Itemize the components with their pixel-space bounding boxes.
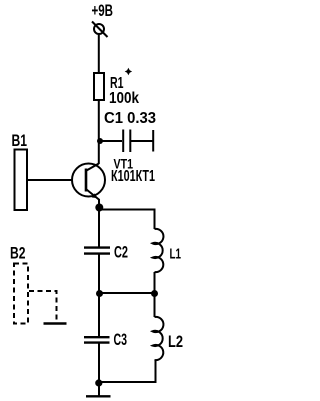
inductor L2 (153, 317, 164, 360)
wire C2 to mid node (98, 254, 100, 294)
capacitor C3 (84, 337, 110, 342)
R1 selection star (125, 68, 132, 75)
svg-text:К101КТ1: К101КТ1 (111, 168, 155, 185)
node ground junction (95, 379, 102, 386)
wire mid node to L2 top (154, 294, 156, 318)
wire R1 to collector node (98, 100, 100, 164)
ground stub (98, 383, 100, 396)
resistor R1 (94, 73, 104, 100)
svg-text:L1: L1 (170, 246, 182, 263)
dashed wire B2 to chassis (29, 291, 57, 320)
svg-text:B1: B1 (12, 131, 28, 150)
svg-text:B2: B2 (10, 245, 26, 263)
svg-text:L2: L2 (168, 332, 183, 351)
svg-text:C1 0.33: C1 0.33 (104, 110, 156, 127)
power terminal X1 (92, 22, 108, 38)
wire emitter node to L1 top (100, 210, 155, 230)
node emitter junction (95, 204, 103, 212)
wire L1 to mid node (154, 272, 156, 294)
wire B1 to base (27, 179, 72, 181)
wire C3 to ground node (98, 343, 100, 383)
ground bar (86, 395, 111, 397)
wire emitter node to C2 (98, 210, 100, 248)
mid rail wire (99, 292, 155, 294)
svg-text:100k: 100k (109, 90, 139, 107)
transistor VT1 (72, 164, 105, 210)
node mid junction right (151, 290, 158, 297)
microphone B1 (15, 150, 28, 211)
wire mid node to C3 (98, 294, 100, 338)
wire terminal to R1 (98, 34, 100, 73)
svg-text:+9В: +9В (92, 2, 114, 20)
wire L2 to bottom rail (100, 360, 156, 382)
chassis bar for B2 (44, 322, 67, 324)
inductor L1 (153, 229, 164, 272)
svg-text:C2: C2 (114, 244, 128, 262)
svg-text:C3: C3 (114, 331, 128, 349)
capacitor C2 (84, 248, 110, 254)
node mid junction left (96, 290, 103, 297)
node collector junction (97, 138, 103, 144)
speaker B2 dashed (14, 264, 28, 324)
capacitor C1 (101, 130, 153, 153)
